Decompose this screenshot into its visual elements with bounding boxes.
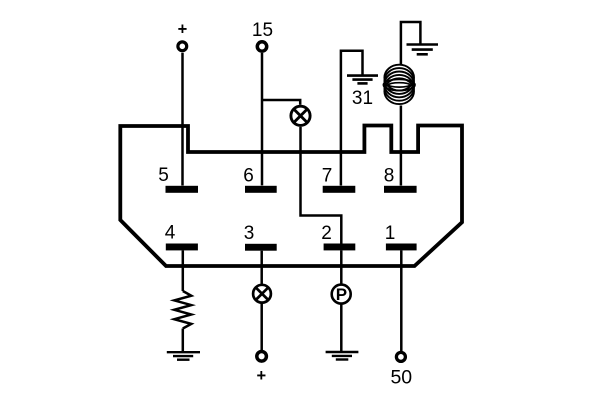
resistor R [174,291,191,329]
wire P to ground [340,304,343,352]
terminal 15 (ignition) [252,20,273,51]
svg-text:31: 31 [352,88,373,109]
svg-text:P: P [336,285,347,304]
svg-text:2: 2 [321,223,332,244]
svg-text:8: 8 [384,165,395,186]
ground 31 [347,76,378,84]
terminal + (bottom) [256,352,266,386]
ground below P [326,352,359,360]
wire pin 3 to lamp [260,251,263,285]
svg-text:+: + [178,20,188,38]
pin 8 [384,186,417,193]
wire coil to ground (top) [401,22,421,66]
svg-text:6: 6 [243,165,254,186]
pin 6 [245,186,277,193]
wire 15 terminal to pin 6 [261,53,264,185]
pin 2 [324,244,356,251]
svg-text:3: 3 [244,223,255,244]
ground below resistor [167,352,200,360]
wire pin 2 to pressure switch P [340,250,343,285]
svg-text:5: 5 [158,165,169,186]
pin 4 [166,244,198,251]
svg-text:50: 50 [390,366,412,388]
wire lamp to + terminal (bottom) [260,303,263,352]
connector housing outline [120,126,462,267]
svg-text:+: + [256,367,266,385]
terminal 50 [390,352,412,388]
wire + terminal to pin 5 [181,53,184,186]
pin 7 [323,186,356,193]
wire pin 4 to resistor [182,250,185,291]
pressure switch P [332,285,351,305]
svg-text:4: 4 [165,222,176,243]
svg-text:7: 7 [322,165,333,186]
wire coil to pin 8 [400,106,403,186]
indicator lamp (top) [291,106,310,125]
terminal + (top supply) [178,20,188,50]
wire lamp to pin 2 [301,127,342,244]
pin 5 [166,186,199,193]
svg-text:15: 15 [252,20,273,41]
pin 3 [245,244,277,251]
wire resistor to ground [182,329,185,353]
pin 1 [386,244,417,251]
coil (solenoid winding) [383,65,416,104]
svg-text:1: 1 [385,223,396,244]
ground at coil [407,45,439,55]
wire branch from 15 line to indicator lamp [262,100,300,105]
wire pin 7 to terminal 31 ground [341,51,363,186]
indicator lamp (bottom) [253,285,271,303]
wire pin 1 to terminal 50 [400,250,403,352]
